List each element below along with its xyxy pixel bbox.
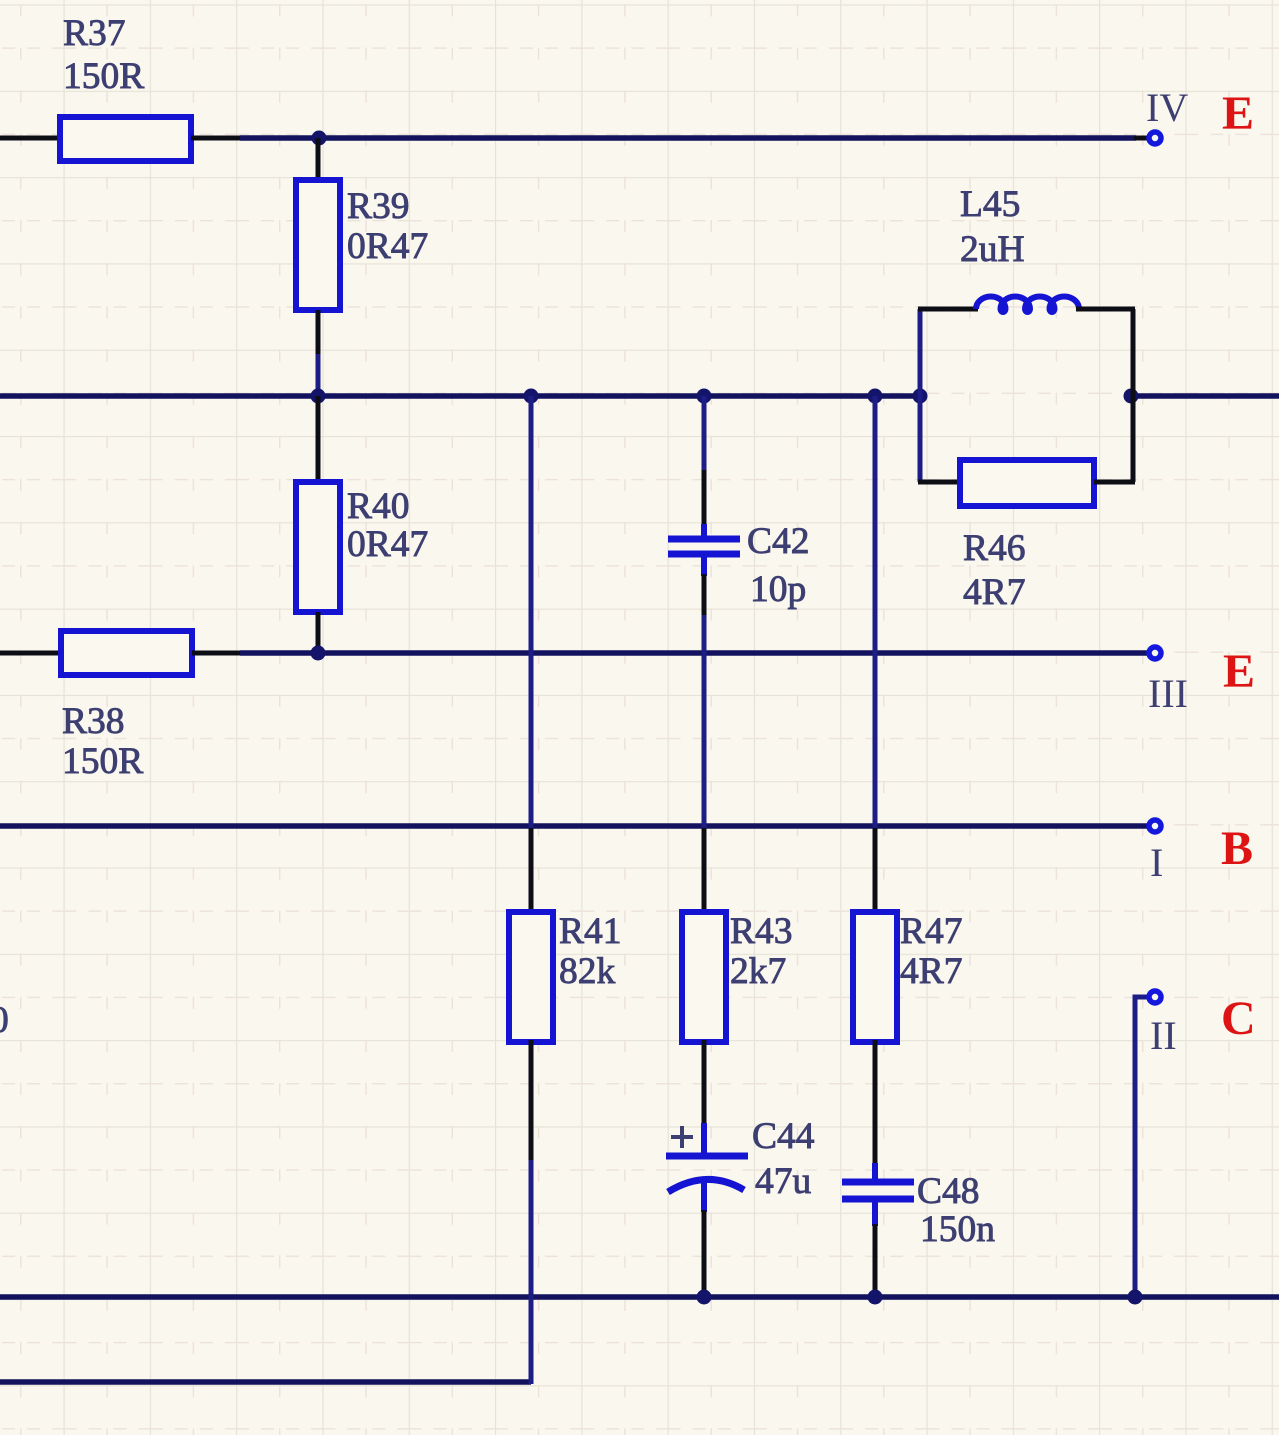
wire net C-II corner [1135, 997, 1147, 1297]
wire R41 to bottom bus [529, 1160, 534, 1297]
wire R40 bottom pin [316, 612, 321, 653]
svg-text:150n: 150n [920, 1209, 995, 1250]
wire R41 bottom pin [529, 1040, 534, 1162]
terminal circle I [1149, 820, 1161, 832]
svg-text:150R: 150R [62, 741, 143, 782]
wire x704 mid [702, 615, 707, 830]
wire bottom bus [0, 1294, 1279, 1300]
wire R46 right pin [1094, 480, 1135, 485]
terminal circle IV [1149, 132, 1161, 144]
node junction bus/R41 [524, 389, 539, 404]
svg-text:E: E [1223, 645, 1255, 698]
wire R39 top pin [316, 138, 321, 182]
svg-text:I: I [1150, 840, 1163, 885]
wire L45 top left pin [918, 307, 978, 312]
svg-text:0: 0 [0, 1000, 9, 1041]
wire R43 bottom pin [702, 1040, 707, 1125]
node junction bottom/C48 [868, 1290, 883, 1305]
resistor R38 [61, 631, 192, 675]
node junction bus/R47 [868, 389, 883, 404]
wire R37 right pin [191, 136, 242, 141]
wire R46 left pin [918, 480, 962, 485]
svg-text:III: III [1148, 671, 1188, 716]
svg-text:2uH: 2uH [960, 229, 1025, 270]
terminal circle III [1149, 647, 1161, 659]
resistor R39 [296, 180, 340, 310]
wire branch x704 bus to C42 [702, 396, 707, 472]
wire net E-III [240, 650, 1147, 656]
wire L45 top right pin [1076, 307, 1135, 312]
wire R39 to bus [316, 354, 321, 396]
resistor R43 [682, 912, 726, 1042]
wire net B-I [0, 823, 1147, 829]
wire R41 top pin [529, 828, 534, 914]
svg-text:E: E [1222, 87, 1254, 140]
svg-text:C44: C44 [752, 1116, 815, 1157]
wire main bus right [1131, 393, 1279, 399]
svg-text:2k7: 2k7 [730, 951, 786, 992]
capacitor C44 [666, 1123, 748, 1212]
resistor R46 [960, 460, 1094, 506]
node junction bus/L45 left [913, 389, 928, 404]
inductor L45 [976, 296, 1079, 312]
wire L45 loop right vertical [1131, 309, 1136, 482]
svg-text:10p: 10p [750, 569, 806, 610]
svg-text:0R47: 0R47 [347, 226, 428, 267]
wire R38 right pin [192, 651, 242, 656]
wire C48 bottom pin [873, 1224, 878, 1297]
svg-text:0R47: 0R47 [347, 524, 428, 565]
svg-text:R41: R41 [559, 911, 622, 952]
node junction R37/R39 [312, 131, 327, 146]
wire R40 top pin [316, 396, 321, 484]
node junction bottom/C44 [697, 1290, 712, 1305]
wire C44 bottom pin [702, 1210, 707, 1297]
resistor R37 [60, 117, 191, 161]
resistor R41 [509, 912, 553, 1042]
svg-text:C: C [1221, 992, 1256, 1045]
svg-text:C42: C42 [747, 521, 810, 562]
wire L45 loop left vertical [918, 309, 923, 482]
svg-text:4R7: 4R7 [963, 572, 1026, 613]
wire net E-IV [240, 135, 1136, 141]
wire C42 bottom pin [702, 574, 707, 617]
svg-text:B: B [1221, 822, 1253, 875]
wire bottom return vertical [529, 1295, 534, 1384]
capacitor C42 bottom stub [701, 553, 707, 576]
svg-text:150R: 150R [63, 56, 144, 97]
svg-text:R39: R39 [347, 186, 410, 227]
svg-text:L45: L45 [960, 184, 1020, 225]
wire branch x875 bus to R47 [873, 396, 878, 830]
svg-text:IV: IV [1146, 85, 1188, 130]
svg-text:R40: R40 [347, 486, 410, 527]
svg-text:R37: R37 [63, 13, 126, 54]
svg-text:R47: R47 [900, 911, 963, 952]
resistor R40 [296, 482, 340, 612]
wire R47 bottom pin [873, 1040, 878, 1165]
wire C42 top pin [702, 470, 707, 526]
wire R43 top pin [702, 828, 707, 914]
wire R47 top pin [873, 828, 878, 914]
wire bottom return horizontal [0, 1379, 531, 1385]
svg-text:R43: R43 [730, 911, 793, 952]
svg-text:II: II [1150, 1013, 1177, 1058]
wire main bus left [0, 393, 920, 399]
wire net E-IV left stub [0, 136, 58, 141]
node junction bus/C42 [697, 389, 712, 404]
svg-text:4R7: 4R7 [900, 951, 963, 992]
wire R39 bottom pin [316, 310, 321, 356]
node junction bottom/C-II [1128, 1290, 1143, 1305]
capacitor C42 [668, 539, 740, 554]
capacitor C44 plus sign [671, 1126, 693, 1148]
svg-text:C48: C48 [917, 1171, 980, 1212]
svg-text:47u: 47u [755, 1161, 812, 1202]
resistor R47 [853, 912, 897, 1042]
wire branch x531 bus to R41 [529, 396, 534, 830]
wire IV terminal stub [1134, 136, 1147, 141]
wire net E-III left stub [0, 651, 60, 656]
node junction bus/R39 [311, 389, 326, 404]
terminal circle II [1149, 991, 1161, 1003]
capacitor C42 top stub [701, 524, 707, 540]
node junction R38/R40 [311, 646, 326, 661]
svg-text:82k: 82k [559, 951, 616, 992]
node junction bus/L45 right [1124, 389, 1139, 404]
svg-text:R46: R46 [963, 528, 1026, 569]
capacitor C48 [842, 1163, 914, 1226]
svg-text:R38: R38 [62, 701, 125, 742]
